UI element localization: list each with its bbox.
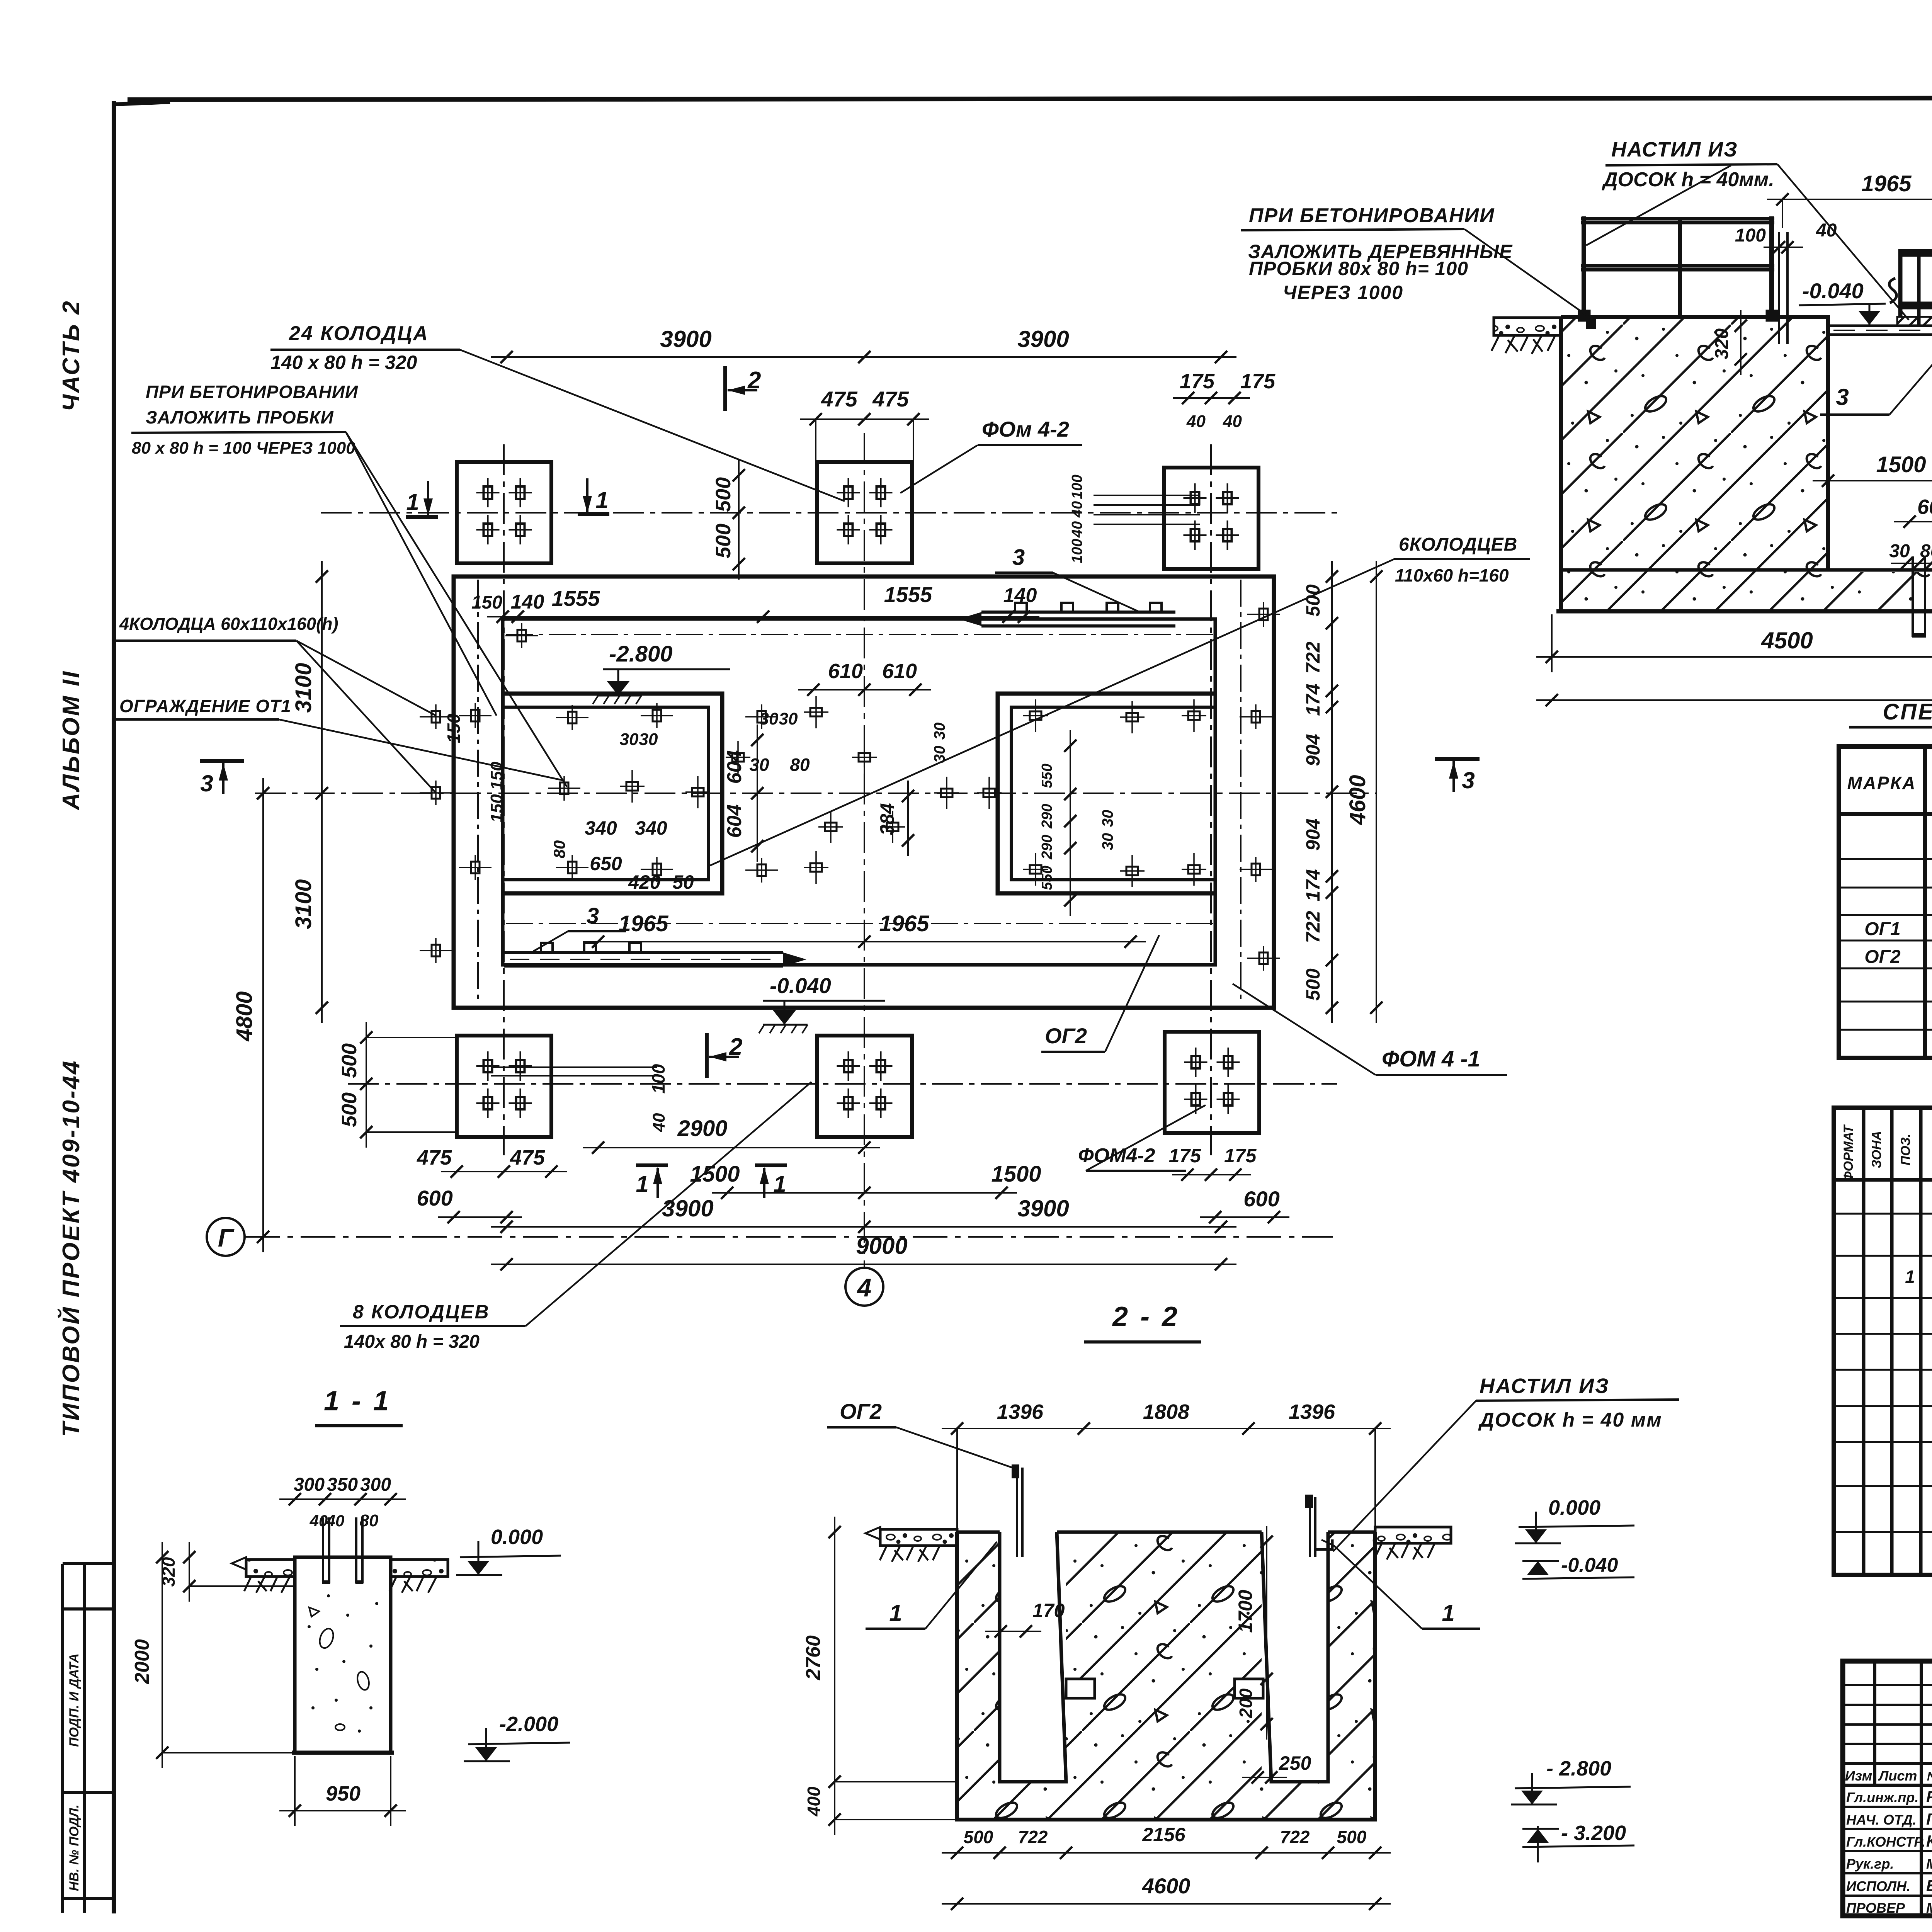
svg-text:1700: 1700	[1235, 1590, 1256, 1633]
svg-text:СПЕЦИФИКАЦИЯ ЭЛЕМЕНТОВ К: СПЕЦИФИКАЦИЯ ЭЛЕМЕНТОВ К МАРКИРОВОЧНОЙ С…	[1883, 699, 1932, 724]
ground strip left	[1494, 318, 1561, 335]
dim 9000	[1536, 699, 1932, 701]
svg-text:ПОЗ.: ПОЗ.	[1898, 1134, 1913, 1165]
table2 frame	[1834, 1108, 1932, 1575]
svg-text:722: 722	[1018, 1827, 1048, 1847]
svg-text:- 3.200: - 3.200	[1561, 1821, 1626, 1845]
left part rows	[1843, 1684, 1932, 1686]
anchor bolts 1-1	[322, 1517, 324, 1583]
dim 950 1-1	[279, 1810, 406, 1811]
svg-text:1: 1	[595, 487, 608, 513]
svg-text:ФОМ4-2: ФОМ4-2	[1078, 1145, 1155, 1167]
dim 3900/3900 top	[491, 356, 1236, 358]
svg-text:300: 300	[360, 1475, 391, 1495]
dim 175/175 top right	[1173, 397, 1250, 399]
svg-text:140х 80 h = 320: 140х 80 h = 320	[344, 1332, 480, 1352]
svg-text:400: 400	[804, 1786, 824, 1816]
svg-text:600: 600	[1243, 1187, 1279, 1211]
leaders to bolts	[346, 432, 567, 787]
svg-text:3: 3	[1012, 545, 1025, 570]
left margin rotated labels	[67, 1653, 82, 1891]
svg-text:2: 2	[747, 367, 761, 394]
svg-text:МАСЛОБОЙНИКОВА: МАСЛОБОЙНИКОВА	[1926, 1855, 1932, 1872]
dim 4500/4500	[1536, 656, 1932, 658]
foundation pad	[1165, 1032, 1259, 1133]
svg-text:320: 320	[1712, 328, 1732, 359]
svg-text:2 - 2: 2 - 2	[1112, 1301, 1180, 1332]
section mark 1-1 top	[406, 515, 438, 519]
dim 600 bottom left	[438, 1216, 522, 1218]
vertical centerline right pads column	[1210, 444, 1212, 1155]
plank strip	[1829, 325, 1932, 327]
vertical centerline left pads column	[503, 444, 505, 1155]
svg-text:Гл.инж.пр.: Гл.инж.пр.	[1846, 1789, 1918, 1805]
svg-text:175: 175	[1240, 370, 1276, 393]
dash-dot inner band lines	[506, 634, 1213, 635]
horizontal centerline axis (middle)	[255, 793, 1376, 794]
dim 600/600 pit	[1894, 521, 1932, 522]
svg-text:НАСТИЛ ИЗ: НАСТИЛ ИЗ	[1611, 138, 1738, 161]
svg-text:2900: 2900	[677, 1116, 727, 1141]
section mark 3 right	[1435, 757, 1480, 761]
svg-text:904: 904	[1302, 818, 1324, 850]
svg-text:ПРОВЕР: ПРОВЕР	[1846, 1900, 1905, 1916]
svg-text:ОГ2: ОГ2	[1045, 1024, 1087, 1048]
svg-text:30: 30	[779, 709, 798, 728]
dim 500/722/2156/722/500	[942, 1852, 1391, 1854]
axis line from node Г	[245, 1236, 1333, 1238]
svg-text:80 х 80 h = 100 ЧЕРЕЗ 1000: 80 х 80 h = 100 ЧЕРЕЗ 1000	[132, 439, 355, 457]
svg-text:4800: 4800	[232, 991, 257, 1041]
svg-text:500: 500	[1337, 1827, 1367, 1847]
svg-text:650: 650	[590, 853, 622, 874]
svg-text:ФОРМАТ: ФОРМАТ	[1841, 1124, 1856, 1182]
svg-text:- 2.800: - 2.800	[1546, 1757, 1611, 1780]
svg-text:-0.040: -0.040	[1802, 279, 1864, 303]
svg-text:4500: 4500	[1761, 628, 1813, 653]
svg-text:475: 475	[510, 1146, 545, 1169]
dims 550/290/290/550	[1070, 730, 1071, 916]
svg-text:ФОм 4-2: ФОм 4-2	[982, 417, 1069, 441]
svg-text:ОГ2: ОГ2	[840, 1399, 882, 1423]
node 4 circle	[845, 1268, 883, 1306]
ground strip left 2-2	[880, 1529, 957, 1546]
concrete mass hatched	[957, 1532, 1375, 1820]
svg-text:290: 290	[1039, 804, 1055, 828]
dim 1396/1808/1396	[942, 1428, 1391, 1429]
svg-text:3900: 3900	[660, 326, 711, 352]
svg-text:604: 604	[723, 804, 746, 838]
dim 320 1-1	[189, 1542, 190, 1602]
svg-text:3900: 3900	[1017, 326, 1069, 352]
dim 175/175 bottom right	[1172, 1174, 1251, 1175]
svg-text:500: 500	[964, 1827, 993, 1847]
svg-text:420: 420	[628, 871, 661, 893]
svg-text:170: 170	[1032, 1600, 1065, 1621]
svg-text:500: 500	[1302, 584, 1324, 617]
dim 1500/1500 bottom	[712, 1192, 1017, 1194]
svg-text:1500: 1500	[991, 1162, 1041, 1187]
svg-text:3: 3	[1462, 767, 1475, 793]
svg-text:ОГ2: ОГ2	[1864, 947, 1901, 967]
title block outer	[1843, 1661, 1932, 1916]
column body	[295, 1557, 391, 1753]
svg-text:174: 174	[1302, 869, 1324, 901]
dim 300/350/300	[279, 1498, 406, 1500]
plank strip bottom	[504, 951, 783, 954]
svg-text:№ документа: № документа	[1927, 1769, 1932, 1783]
svg-text:4600: 4600	[1142, 1874, 1190, 1898]
ground strip right 2-2	[1375, 1527, 1451, 1543]
plan annotations, leaders, marks	[114, 322, 1530, 1352]
svg-text:8 КОЛОДЦЕВ: 8 КОЛОДЦЕВ	[353, 1301, 490, 1323]
dim 4600 2-2	[942, 1903, 1391, 1905]
svg-text:Гл.КОНСТР.: Гл.КОНСТР.	[1846, 1834, 1925, 1850]
svg-text:ТИПОВОЙ ПРОЕКТ 409-10-44: ТИПОВОЙ ПРОЕКТ 409-10-44	[57, 1060, 85, 1437]
svg-text:1: 1	[1442, 1600, 1454, 1626]
svg-text:1555: 1555	[884, 582, 932, 607]
dim 320	[1740, 310, 1742, 375]
top edges	[957, 1531, 1000, 1534]
left trench	[1000, 1532, 1066, 1782]
svg-text:610: 610	[882, 660, 917, 683]
svg-text:ДОСОК h = 40мм.: ДОСОК h = 40мм.	[1602, 168, 1774, 191]
svg-text:722: 722	[1280, 1827, 1310, 1847]
svg-text:30: 30	[1099, 810, 1116, 827]
svg-text:0.000: 0.000	[491, 1526, 543, 1549]
svg-text:475: 475	[821, 387, 857, 411]
right pad leader lines	[1094, 495, 1200, 496]
svg-text:ЧЕРЕЗ 1000: ЧЕРЕЗ 1000	[1283, 282, 1403, 303]
svg-text:550: 550	[1039, 866, 1055, 890]
svg-text:174: 174	[1302, 684, 1324, 716]
horizontal centerline bottom pads row	[348, 1083, 1337, 1085]
dim 1700/200	[1266, 1526, 1267, 1740]
dim 384	[907, 781, 909, 856]
foundation pad	[817, 1036, 912, 1137]
svg-text:950: 950	[326, 1782, 361, 1805]
svg-text:1: 1	[636, 1171, 648, 1197]
svg-text:604: 604	[723, 750, 746, 784]
notch right	[1235, 1679, 1263, 1698]
svg-text:4: 4	[857, 1273, 872, 1302]
svg-text:150: 150	[487, 794, 506, 823]
foundation outline	[1561, 317, 1932, 570]
left part columns	[1873, 1661, 1876, 1785]
svg-text:Лист: Лист	[1878, 1768, 1917, 1784]
svg-text:1965: 1965	[618, 911, 668, 936]
dim 4800 left	[262, 778, 264, 1252]
right trench post	[1309, 1497, 1311, 1557]
dim 610/610	[798, 689, 931, 690]
left platform wall (C-shape)	[503, 694, 722, 893]
svg-text:1555: 1555	[552, 586, 600, 611]
section mark 3 left	[200, 759, 244, 763]
svg-text:-0.040: -0.040	[770, 973, 831, 998]
svg-text:320: 320	[158, 1557, 179, 1587]
plan outer pit rectangle	[454, 577, 1274, 1008]
svg-text:1500: 1500	[1876, 452, 1926, 477]
svg-text:9000: 9000	[856, 1233, 907, 1259]
svg-text:40: 40	[310, 1512, 328, 1530]
dim 600 bottom right	[1200, 1216, 1289, 1218]
svg-text:ОГ1: ОГ1	[1864, 919, 1901, 939]
svg-text:1: 1	[1905, 1267, 1915, 1287]
svg-text:175: 175	[1224, 1145, 1257, 1167]
svg-text:500: 500	[1302, 968, 1324, 1001]
horizontal centerline top pads row	[321, 512, 1337, 514]
node Г circle	[207, 1218, 245, 1256]
foundation pad	[1164, 468, 1259, 569]
svg-text:3: 3	[200, 770, 213, 796]
foundation pad	[457, 462, 551, 563]
bottom slab hatched	[1561, 572, 1932, 611]
svg-text:3100: 3100	[291, 879, 316, 929]
svg-text:200: 200	[1236, 1688, 1256, 1718]
outline	[957, 1532, 1375, 1820]
svg-text:1808: 1808	[1143, 1400, 1189, 1423]
slab bottom line	[1556, 609, 1932, 614]
svg-text:АЛЬБОМ II: АЛЬБОМ II	[58, 670, 85, 811]
dim 475/475 top	[800, 418, 929, 420]
svg-text:ЗОНА: ЗОНА	[1869, 1131, 1884, 1168]
svg-text:ГЛАЗУНОВ: ГЛАЗУНОВ	[1926, 1810, 1932, 1828]
svg-text:80: 80	[360, 1511, 379, 1530]
svg-text:40: 40	[650, 1113, 668, 1132]
svg-text:30: 30	[620, 730, 639, 749]
dim 604/604	[757, 724, 758, 862]
embedded bolts scatter	[420, 602, 1280, 971]
svg-text:290: 290	[1039, 835, 1055, 859]
svg-text:600: 600	[1917, 495, 1932, 519]
svg-text:3900: 3900	[662, 1196, 713, 1221]
svg-text:-2.000: -2.000	[499, 1713, 558, 1736]
svg-text:3: 3	[1836, 384, 1849, 410]
svg-text:40: 40	[1186, 412, 1206, 431]
dim 500/500 top middle pad	[738, 460, 740, 580]
dim 3900/3900 bottom	[491, 1226, 1236, 1228]
frame left border	[112, 101, 116, 1913]
dim 3100/3100 left	[321, 561, 323, 1023]
svg-text:МАСЛОБОЙЩИКОВА: МАСЛОБОЙЩИКОВА	[1926, 1900, 1932, 1916]
svg-text:340: 340	[585, 817, 617, 839]
anchor bolts pit	[1912, 556, 1914, 637]
svg-text:610: 610	[828, 660, 863, 683]
svg-text:ОГРАЖДЕНИЕ ОТ1: ОГРАЖДЕНИЕ ОТ1	[119, 696, 291, 716]
svg-text:250: 250	[1279, 1752, 1311, 1774]
svg-text:550: 550	[1039, 764, 1055, 788]
svg-text:100: 100	[648, 1064, 668, 1094]
svg-text:0.000: 0.000	[1548, 1496, 1600, 1519]
dim 2760/400	[834, 1517, 835, 1835]
svg-text:30: 30	[639, 730, 658, 749]
ground strip right 1-1	[391, 1560, 448, 1577]
dim 500/500 bottom left pad	[366, 1022, 367, 1148]
slab top line	[1561, 568, 1932, 572]
svg-text:Рук.гр.: Рук.гр.	[1846, 1856, 1894, 1872]
svg-text:6КОЛОДЦЕВ: 6КОЛОДЦЕВ	[1399, 534, 1517, 555]
dim 140/1555/1555/140	[487, 616, 1039, 617]
svg-text:ФОМ 4 -1: ФОМ 4 -1	[1382, 1046, 1480, 1071]
left railing	[1580, 216, 1777, 320]
section mark 2 bottom	[705, 1033, 709, 1078]
svg-text:1965: 1965	[1861, 171, 1912, 196]
frame top border	[128, 97, 1932, 100]
svg-text:ЕРОХИНА: ЕРОХИНА	[1926, 1876, 1932, 1895]
svg-text:140: 140	[511, 591, 544, 613]
svg-text:140 х 80 h = 320: 140 х 80 h = 320	[270, 352, 417, 373]
svg-text:100: 100	[1069, 474, 1085, 499]
svg-text:2: 2	[729, 1034, 742, 1060]
svg-text:475: 475	[872, 387, 909, 411]
dim 9000 bottom	[491, 1264, 1236, 1265]
svg-text:1396: 1396	[1289, 1400, 1335, 1423]
svg-text:904: 904	[1302, 734, 1324, 766]
corner notch top-left	[114, 102, 170, 104]
dim 2000 1-1	[162, 1542, 163, 1768]
svg-text:80: 80	[550, 840, 568, 859]
svg-text:722: 722	[1302, 641, 1324, 674]
leader to pad	[460, 350, 845, 501]
svg-text:500: 500	[338, 1092, 361, 1127]
left margin stamp text vertical	[57, 299, 85, 1437]
dim 1500/1500 pit	[1813, 480, 1932, 481]
svg-text:340: 340	[635, 817, 667, 839]
left trench post	[1016, 1468, 1018, 1557]
middle railing ОГ1	[1899, 249, 1932, 326]
svg-text:НАСТИЛ ИЗ: НАСТИЛ ИЗ	[1480, 1374, 1610, 1398]
svg-text:-0.040: -0.040	[1561, 1554, 1618, 1577]
svg-text:ПРОБКИ 80х 80 h= 100: ПРОБКИ 80х 80 h= 100	[1249, 258, 1468, 279]
svg-text:КАЛЬЧУК: КАЛЬЧУК	[1926, 1832, 1932, 1850]
plan inner band rectangle	[503, 619, 1215, 965]
svg-text:30: 30	[1889, 541, 1910, 561]
section marks 1 bottom	[636, 1163, 668, 1167]
svg-text:3100: 3100	[291, 663, 316, 713]
svg-text:1 - 1: 1 - 1	[324, 1386, 391, 1417]
svg-text:30: 30	[931, 723, 948, 740]
svg-text:40: 40	[1069, 521, 1085, 538]
svg-text:Изм: Изм	[1845, 1768, 1872, 1784]
svg-text:НВ. № ПОДЛ.: НВ. № ПОДЛ.	[67, 1804, 82, 1891]
svg-text:4600: 4600	[1345, 775, 1370, 825]
svg-text:384: 384	[876, 803, 898, 835]
right platform wall (C-shape mirrored)	[998, 694, 1215, 893]
plank strip top	[981, 611, 1175, 614]
svg-text:РЫЖАК: РЫЖАК	[1926, 1787, 1932, 1806]
svg-text:300: 300	[294, 1475, 325, 1495]
settle hatched strip	[1897, 317, 1932, 325]
svg-text:1396: 1396	[997, 1400, 1044, 1423]
svg-text:30: 30	[760, 709, 779, 728]
svg-text:1965: 1965	[879, 911, 929, 936]
svg-text:ИСПОЛН.: ИСПОЛН.	[1846, 1878, 1910, 1894]
left concrete block hatched	[1561, 317, 1828, 572]
svg-text:Г: Г	[218, 1223, 235, 1252]
svg-text:2760: 2760	[802, 1635, 825, 1680]
svg-text:175: 175	[1180, 370, 1215, 393]
svg-text:ПРИ БЕТОНИРОВАНИИ: ПРИ БЕТОНИРОВАНИИ	[146, 382, 358, 402]
svg-text:1: 1	[889, 1600, 902, 1626]
right dims 500..500 column	[1331, 561, 1333, 1023]
svg-text:30: 30	[749, 755, 769, 775]
svg-text:175: 175	[1169, 1145, 1202, 1167]
ground strip left 1-1	[246, 1560, 295, 1577]
svg-text:40: 40	[326, 1512, 345, 1530]
svg-text:ДОСОК h = 40 мм: ДОСОК h = 40 мм	[1478, 1409, 1662, 1431]
svg-text:ЗАЛОЖИТЬ ПРОБКИ: ЗАЛОЖИТЬ ПРОБКИ	[146, 407, 334, 427]
foundation pad	[817, 462, 912, 563]
svg-text:150: 150	[444, 713, 464, 743]
svg-text:3: 3	[587, 903, 599, 929]
dim 4600 right	[1376, 561, 1377, 1023]
svg-text:150: 150	[471, 592, 502, 613]
svg-text:1: 1	[406, 489, 419, 515]
svg-text:2000: 2000	[131, 1639, 153, 1684]
dim 475/475 bottom	[441, 1171, 567, 1172]
svg-text:4КОЛОДЦА 60х110х160(h): 4КОЛОДЦА 60х110х160(h)	[119, 614, 338, 634]
dim 2900	[583, 1147, 880, 1148]
dim 1965/1965 plan	[583, 941, 1146, 942]
svg-text:-2.800: -2.800	[609, 641, 672, 667]
board on edge left	[1778, 232, 1780, 344]
svg-text:40: 40	[1223, 412, 1242, 431]
svg-text:НАЧ. ОТД.: НАЧ. ОТД.	[1846, 1812, 1917, 1828]
svg-text:3900: 3900	[1017, 1196, 1069, 1221]
svg-text:475: 475	[417, 1146, 452, 1169]
svg-text:110х60 h=160: 110х60 h=160	[1395, 565, 1509, 585]
plan dimension chains	[232, 326, 1383, 1270]
svg-text:ПОДП. И ДАТА: ПОДП. И ДАТА	[67, 1653, 82, 1747]
LEFT-MARGIN-BOXES	[63, 1564, 114, 1913]
svg-text:80: 80	[790, 755, 810, 775]
svg-text:100: 100	[1069, 539, 1085, 563]
svg-text:1: 1	[773, 1171, 786, 1197]
svg-text:ПРИ БЕТОНИРОВАНИИ: ПРИ БЕТОНИРОВАНИИ	[1249, 204, 1495, 227]
notch left	[1066, 1679, 1095, 1698]
svg-text:600: 600	[417, 1186, 452, 1210]
svg-text:40: 40	[1069, 501, 1085, 518]
svg-text:722: 722	[1302, 911, 1324, 943]
table1 frame	[1839, 747, 1932, 1058]
vertical centerline middle pads column	[864, 433, 865, 1267]
svg-text:100: 100	[1735, 225, 1766, 246]
svg-text:МАРКА: МАРКА	[1847, 773, 1917, 793]
svg-text:350: 350	[327, 1475, 358, 1495]
svg-text:500: 500	[712, 477, 735, 512]
section mark 2 top	[723, 366, 727, 411]
svg-text:2156: 2156	[1142, 1824, 1185, 1845]
dim 1965/1965 sec3-3	[1767, 199, 1932, 200]
svg-text:ЧАСТЬ 2: ЧАСТЬ 2	[58, 299, 85, 411]
svg-text:500: 500	[712, 524, 735, 558]
svg-text:24 КОЛОДЦА: 24 КОЛОДЦА	[289, 322, 429, 345]
svg-text:50: 50	[672, 871, 694, 893]
right trench	[1262, 1532, 1328, 1782]
svg-text:30: 30	[1099, 833, 1116, 850]
svg-text:500: 500	[338, 1043, 361, 1078]
foundation pad	[457, 1036, 551, 1137]
